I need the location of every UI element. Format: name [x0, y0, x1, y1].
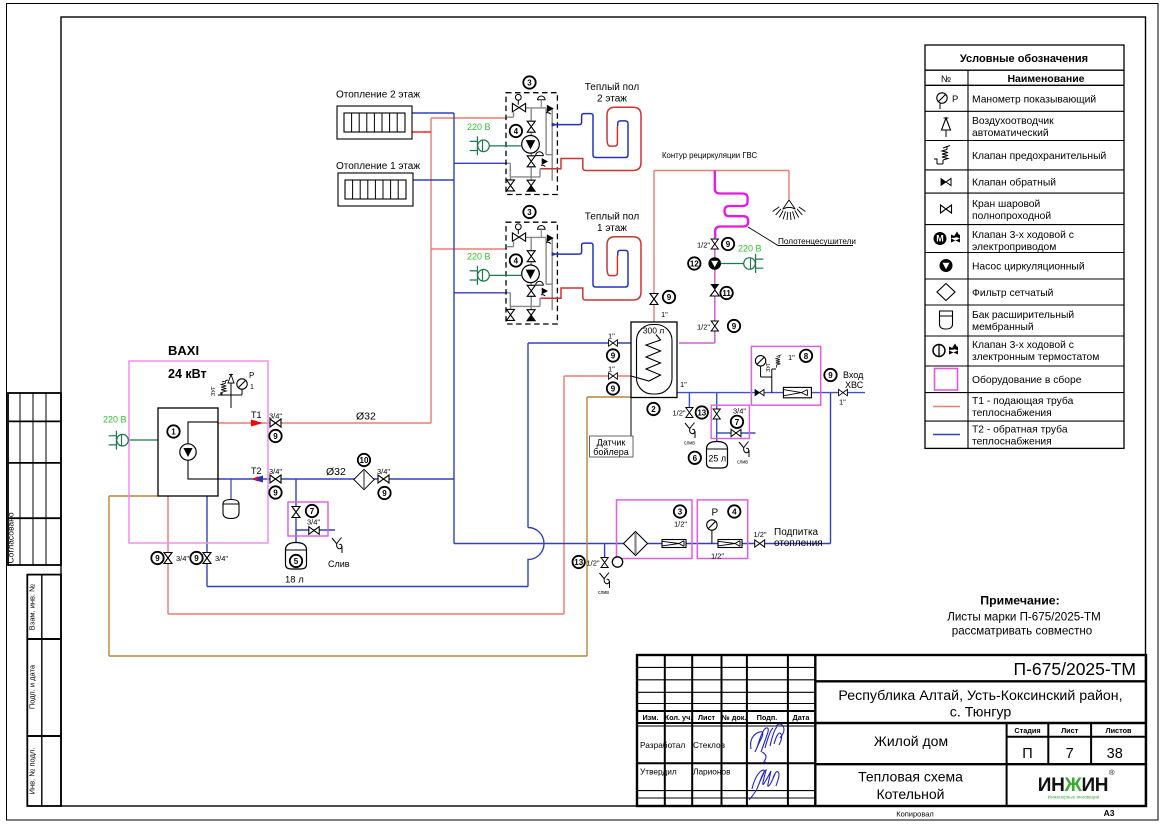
valve boiler DHW red 3/4 [164, 553, 172, 564]
svg-text:Отопление 2 этаж: Отопление 2 этаж [336, 90, 420, 101]
legend symbol: 3-way valve with drive [934, 232, 947, 245]
svg-text:7: 7 [735, 418, 740, 427]
svg-text:25 л: 25 л [708, 454, 726, 464]
valve DHW drain 1/2 with node 13 [686, 408, 693, 418]
svg-text:4: 4 [732, 508, 737, 517]
wire radiator 2 supply link [412, 131, 431, 133]
svg-text:Ø32: Ø32 [326, 466, 346, 478]
svg-text:3/4": 3/4" [176, 554, 189, 563]
make-up shutoff valve 1/2 [755, 540, 765, 547]
svg-text:Подп.: Подп. [757, 713, 778, 722]
svg-text:отопления: отопления [774, 538, 823, 549]
svg-text:1": 1" [680, 380, 687, 389]
valve tank supply 1" [609, 373, 618, 379]
legend symbol: air vent [942, 118, 951, 137]
svg-text:3/4": 3/4" [733, 407, 746, 416]
svg-text:9: 9 [155, 554, 160, 563]
label towel dryers [748, 227, 853, 246]
svg-text:Воздухоотводчик: Воздухоотводчик [972, 116, 1054, 127]
svg-text:300 л: 300 л [643, 326, 665, 336]
svg-text:Т2 - обратная труба: Т2 - обратная труба [972, 424, 1068, 436]
svg-text:9: 9 [828, 371, 833, 380]
safety valve on boiler [221, 380, 228, 396]
svg-text:5: 5 [294, 557, 299, 566]
svg-text:220 В: 220 В [103, 415, 127, 425]
legend symbol: expansion tank [940, 311, 953, 329]
svg-text:1/2": 1/2" [754, 530, 767, 539]
boiler tank 300l [631, 322, 677, 398]
svg-text:10: 10 [360, 456, 369, 465]
svg-text:1/2": 1/2" [674, 520, 687, 529]
legend symbol: T1 supply line [933, 406, 960, 408]
wire tank sensor cable [109, 397, 631, 656]
svg-text:38: 38 [1107, 746, 1123, 762]
svg-text:1: 1 [171, 428, 176, 437]
wire DHW recirculation loop [654, 171, 789, 323]
svg-text:1: 1 [250, 384, 254, 391]
svg-text:Ларионов: Ларионов [693, 767, 731, 777]
svg-text:Согласовано: Согласовано [6, 512, 16, 563]
title header labels [642, 713, 810, 722]
node 9 at HVS input [824, 369, 836, 381]
svg-text:Тепловая схема: Тепловая схема [858, 769, 963, 785]
drain valve in box 7bis [731, 429, 741, 436]
svg-text:слив: слив [684, 441, 695, 447]
safety valve assembly in box 8 [761, 366, 776, 393]
svg-text:Бак расширительный: Бак расширительный [972, 310, 1074, 321]
svg-text:Котельной: Котельной [876, 786, 944, 802]
svg-text:1/2": 1/2" [711, 552, 724, 561]
legend symbol: pump [940, 259, 953, 272]
wire tank return link [528, 342, 631, 344]
check valve 11 [710, 284, 719, 296]
left approval stamp table [8, 393, 61, 565]
legend symbol: gauge [937, 93, 947, 109]
wire T2 riser [453, 113, 455, 479]
valve in box 7bis [713, 409, 720, 419]
pressure reducer in box 8 [783, 387, 811, 397]
legend row texts [972, 95, 1106, 448]
wire T1 riser up [430, 118, 432, 423]
svg-text:Подп. и дата: Подп. и дата [28, 664, 37, 709]
legend symbol: ball valve [941, 205, 952, 213]
svg-text:Инв. № подл.: Инв. № подл. [28, 748, 37, 795]
node 2 [647, 403, 659, 415]
svg-text:Слив: Слив [328, 559, 350, 569]
signature 1 [751, 724, 784, 752]
left grid verticals [665, 655, 788, 806]
legend symbol: T2 return line [933, 434, 960, 436]
svg-text:слив: слив [598, 590, 609, 596]
valve at HVS input 1" [839, 389, 848, 395]
svg-text:9: 9 [194, 554, 199, 563]
wire radiator 2 return link [412, 112, 454, 114]
svg-text:Фильтр сетчатый: Фильтр сетчатый [972, 288, 1054, 299]
svg-text:3/4": 3/4" [215, 554, 228, 563]
svg-text:6: 6 [693, 454, 698, 463]
svg-text:Контур рециркуляции ГВС: Контур рециркуляции ГВС [662, 151, 757, 160]
svg-text:18 л: 18 л [285, 575, 304, 586]
svg-text:24 кВт: 24 кВт [168, 367, 207, 381]
svg-text:Стеклов: Стеклов [693, 740, 726, 750]
svg-text:Кран шаровой: Кран шаровой [972, 199, 1041, 210]
power plug recirc pump [744, 254, 764, 273]
valve drain in box 7 [309, 527, 319, 535]
svg-text:№ док.: № док. [722, 713, 747, 722]
wire radiator 1 return link [413, 179, 454, 181]
strainer in box 3 [624, 532, 648, 556]
svg-text:с. Тюнгур: с. Тюнгур [950, 705, 1012, 721]
svg-text:13: 13 [574, 558, 583, 567]
wire T2 return from riser to boiler [218, 478, 454, 480]
svg-text:Клапан обратный: Клапан обратный [972, 177, 1056, 189]
backflow preventer in box 4 [718, 540, 742, 548]
wire return link to mixing unit 2 [454, 162, 507, 164]
svg-text:Инженерные инновации: Инженерные инновации [1048, 795, 1100, 800]
svg-text:9: 9 [732, 322, 737, 331]
safety group stem [218, 378, 242, 408]
valve T1 3/4 [270, 419, 281, 427]
svg-text:BAXI: BAXI [168, 343, 199, 358]
svg-text:1": 1" [839, 398, 846, 407]
label box sensor [590, 436, 634, 457]
svg-text:1": 1" [608, 365, 615, 374]
svg-text:9: 9 [611, 352, 616, 361]
svg-text:T1: T1 [251, 410, 262, 420]
wire boiler drain branch to vessel 18l [296, 479, 335, 542]
svg-text:®: ® [1109, 768, 1115, 777]
svg-text:ЗУГ: ЗУГ [211, 386, 217, 396]
flow arrow T1 [251, 420, 263, 427]
svg-text:теплоснабжения: теплоснабжения [972, 407, 1052, 419]
svg-text:Т1 - подающая труба: Т1 - подающая труба [972, 395, 1074, 407]
svg-text:Листы марки П-675/2025-ТМ: Листы марки П-675/2025-ТМ [947, 611, 1101, 624]
svg-text:Теплый пол: Теплый пол [585, 212, 640, 223]
svg-text:3/4": 3/4" [269, 467, 282, 476]
drain under valve 13 [600, 573, 610, 589]
svg-text:Ø32: Ø32 [356, 411, 376, 423]
svg-text:1/2": 1/2" [697, 241, 710, 250]
equipment box 7 near boiler [288, 502, 328, 536]
svg-text:бойлера: бойлера [593, 447, 628, 457]
valve tank return 1" [609, 340, 618, 346]
signature 2 [752, 770, 779, 789]
svg-text:Разработал: Разработал [640, 740, 685, 750]
legend symbol: strainer filter [937, 284, 955, 301]
valve T2 3/4 [270, 475, 281, 483]
svg-text:Жилой дом: Жилой дом [874, 733, 948, 749]
svg-text:Подпитка: Подпитка [774, 527, 819, 538]
svg-text:3/4": 3/4" [269, 412, 282, 421]
left stamp: Подп. и дата [27, 639, 61, 736]
valve boiler DHW blue 3/4 [203, 553, 211, 564]
svg-text:Вход: Вход [843, 370, 864, 380]
wire make-up line (podpitka) [454, 393, 831, 544]
svg-text:Лист: Лист [698, 713, 716, 722]
svg-text:220 В: 220 В [738, 244, 762, 254]
mixing unit floor 2 with warm floor coil [467, 76, 641, 194]
valve after filter 3/4 [378, 475, 389, 483]
equipment box 4 (gauge unit) [697, 500, 747, 559]
svg-text:Кол. уч.: Кол. уч. [665, 713, 693, 722]
svg-text:Утвердил: Утвердил [640, 767, 677, 777]
svg-text:7: 7 [310, 507, 315, 516]
svg-text:Р: Р [712, 508, 719, 519]
check valve in box 8 [755, 389, 764, 395]
svg-text:9: 9 [667, 293, 672, 302]
recirc pump 12 [708, 257, 721, 270]
svg-text:Дата: Дата [793, 713, 811, 722]
mixing unit floor 1 with warm floor coil [467, 206, 641, 324]
svg-text:1": 1" [788, 353, 795, 362]
manometer in box 4 [707, 520, 717, 530]
boiler unit U1 [158, 408, 218, 496]
svg-text:электроприводом: электроприводом [972, 242, 1056, 253]
wire boiler power supply [129, 439, 159, 441]
expansion tank 25l [707, 442, 728, 469]
svg-text:слив: слив [737, 460, 748, 466]
equipment box 3 (filter unit) [617, 500, 693, 559]
svg-text:Наименование: Наименование [1007, 73, 1084, 85]
svg-text:Оборудование в сборе: Оборудование в сборе [972, 374, 1082, 386]
svg-text:8: 8 [804, 352, 809, 361]
svg-text:3: 3 [678, 508, 683, 517]
svg-text:9: 9 [273, 432, 278, 441]
wire stub to safety box near tank [717, 393, 756, 443]
right part horizontals [815, 680, 1146, 682]
strainer filter 10 [354, 469, 374, 489]
flow arrow T2 [251, 476, 263, 483]
svg-text:рассматривать совместно: рассматривать совместно [952, 625, 1092, 638]
legend symbol: equipment assembly box [935, 369, 958, 391]
svg-text:Теплый пол: Теплый пол [585, 82, 640, 93]
svg-text:Лист: Лист [1061, 726, 1079, 735]
wire DHW drain stub [688, 393, 690, 407]
legend symbol: check valve [941, 179, 951, 186]
node 1 [167, 425, 179, 437]
wire boiler DHW supply down and to tank coil [168, 376, 631, 614]
svg-text:11: 11 [722, 289, 731, 298]
svg-text:9: 9 [726, 240, 731, 249]
svg-text:Стадия: Стадия [1014, 726, 1040, 735]
wire make-up drain stub [604, 544, 606, 558]
svg-text:П-675/2025-ТМ: П-675/2025-ТМ [1014, 659, 1137, 679]
svg-text:ЗУГ: ЗУГ [766, 362, 772, 372]
title block frame [637, 655, 1146, 806]
wire DHW outlet to cold water input [677, 392, 865, 394]
power plug boiler [109, 431, 129, 450]
svg-text:Клапан предохранительный: Клапан предохранительный [972, 151, 1106, 162]
svg-text:Р: Р [952, 94, 958, 105]
legend symbol: safety valve [934, 146, 950, 165]
valve in box 7 [292, 507, 300, 518]
stage/sheet labels [1014, 726, 1132, 735]
svg-text:Условные обозначения: Условные обозначения [960, 53, 1088, 65]
manometer on boiler [237, 379, 247, 389]
svg-text:1 этаж: 1 этаж [597, 223, 627, 234]
svg-text:автоматический: автоматический [972, 128, 1049, 139]
svg-text:Взам. инв. №: Взам. инв. № [28, 584, 37, 630]
svg-text:Листов: Листов [1105, 726, 1132, 735]
svg-text:полнопроходной: полнопроходной [972, 211, 1051, 222]
wire return link to mixing unit 1 [454, 292, 507, 294]
svg-text:Копировал: Копировал [896, 810, 934, 819]
svg-text:1/2": 1/2" [673, 409, 686, 418]
svg-text:Датчик: Датчик [597, 438, 626, 448]
svg-text:злектронным термостатом: злектронным термостатом [972, 352, 1099, 363]
equipment box BAXI [129, 361, 268, 543]
svg-text:мембранный: мембранный [972, 321, 1034, 333]
svg-text:Отопление 1 этаж: Отопление 1 этаж [336, 161, 420, 172]
svg-text:P: P [249, 371, 254, 380]
svg-text:9: 9 [273, 489, 278, 498]
equipment box 7bis [711, 405, 749, 438]
svg-text:9: 9 [382, 489, 387, 498]
left stamp: Инв. № подл. [27, 736, 61, 806]
air vent on boiler [228, 375, 234, 384]
svg-text:1": 1" [608, 332, 615, 341]
svg-text:9: 9 [611, 385, 616, 394]
wire T1 supply from boiler to riser [218, 422, 431, 424]
svg-text:Полотенцесушители: Полотенцесушители [778, 237, 856, 246]
svg-text:№: № [941, 74, 951, 85]
valve towel riser top 1/2 [711, 239, 718, 249]
svg-text:13: 13 [697, 409, 706, 418]
svg-text:П: П [1022, 746, 1032, 762]
drain near box 7 [332, 538, 342, 554]
svg-text:Клапан 3-х ходовой с: Клапан 3-х ходовой с [972, 340, 1074, 351]
left grid horizontals: revision rows [637, 667, 815, 703]
svg-text:Примечание:: Примечание: [980, 594, 1059, 608]
svg-text:М: М [936, 234, 944, 244]
valve towel riser bottom 1/2 [711, 321, 718, 331]
drain of box 7bis [739, 442, 749, 458]
svg-text:Манометр показывающий: Манометр показывающий [972, 95, 1096, 106]
svg-text:Клапан 3-х ходовой с: Клапан 3-х ходовой с [972, 230, 1074, 241]
backflow preventer in box 3 [662, 540, 686, 548]
svg-text:T2: T2 [251, 466, 262, 476]
valve recirc at tank top 1" [650, 294, 658, 305]
make-up drain valve 13 [601, 558, 608, 568]
svg-text:3/4": 3/4" [307, 518, 320, 527]
svg-text:2 этаж: 2 этаж [597, 94, 627, 105]
svg-text:1/2": 1/2" [697, 323, 710, 332]
shower head [773, 200, 806, 220]
svg-text:1": 1" [661, 310, 668, 319]
svg-text:3/4": 3/4" [377, 467, 390, 476]
svg-text:Насос циркуляционный: Насос циркуляционный [972, 262, 1085, 273]
towel dryer serpentine [715, 171, 748, 239]
svg-text:ХВС: ХВС [845, 380, 864, 390]
tank internal coil [631, 335, 661, 382]
wire T1 branch to mixing unit 1 [431, 248, 507, 250]
svg-text:теплоснабжения: теплоснабжения [972, 436, 1052, 448]
svg-text:Изм.: Изм. [642, 713, 658, 722]
sensor line to tank [630, 398, 632, 437]
plug cap circle [612, 557, 622, 567]
left stamp: Взам. инв. № [27, 575, 61, 639]
expansion tank 18l [286, 543, 307, 570]
pump inside boiler [180, 444, 196, 460]
svg-text:А3: А3 [1104, 808, 1115, 818]
wire towel dryer riser [679, 238, 715, 343]
expansion vessel in boiler [230, 479, 232, 501]
svg-text:ИНЖИН: ИНЖИН [1038, 775, 1108, 796]
wire T1 branch to mixing unit 2 [431, 117, 507, 119]
legend table frame [925, 45, 1124, 448]
svg-text:1/2": 1/2" [587, 559, 600, 568]
wire boiler DHW return with crossing hop [207, 343, 544, 587]
svg-text:7: 7 [1066, 746, 1074, 762]
svg-text:Республика Алтай, Усть-Коксинс: Республика Алтай, Усть-Коксинский район, [838, 688, 1122, 704]
svg-text:2: 2 [651, 405, 656, 414]
svg-text:12: 12 [690, 260, 699, 269]
legend symbol: 3-way thermostat valve [933, 345, 945, 357]
